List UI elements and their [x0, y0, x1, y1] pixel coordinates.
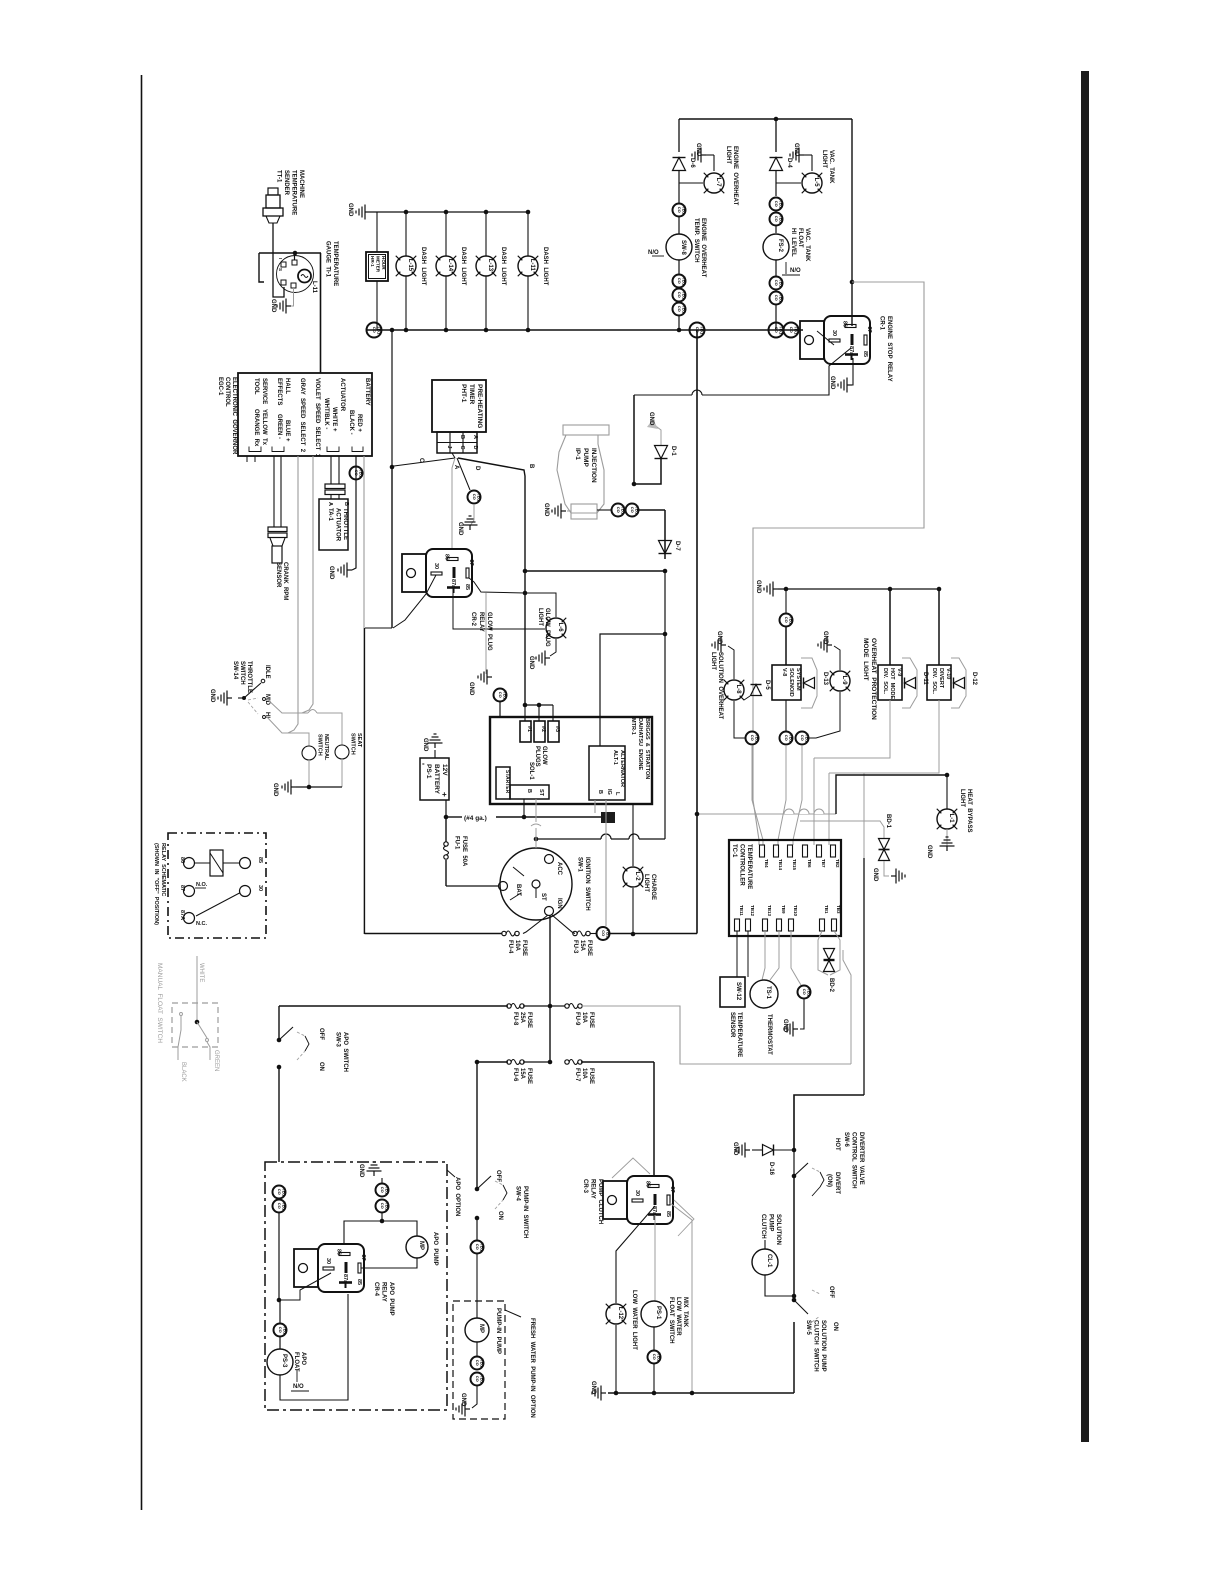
TC-1 bottom row terminals: [735, 919, 740, 931]
svg-text:ENGINE OVERHEATTEMP. SWITCH: ENGINE OVERHEATTEMP. SWITCH: [693, 218, 706, 278]
svg-text:GND: GND: [872, 868, 878, 882]
relay CR-4 pin 86: [339, 1253, 350, 1256]
svg-text:FUSE 50AFU-1: FUSE 50AFU-1: [454, 836, 468, 867]
svg-text:ORANGE Rx: ORANGE Rx: [253, 409, 259, 447]
svg-text:TB1: TB1: [824, 905, 829, 914]
svg-text:ENGINE OVERHEATLIGHT: ENGINE OVERHEATLIGHT: [725, 146, 738, 206]
svg-text:L-12: L-12: [617, 1307, 623, 1320]
svg-text:CO: CO: [800, 735, 805, 741]
svg-text:ST: ST: [538, 789, 544, 797]
glow plug bus: [525, 704, 553, 706]
solution pump clutch switch SW-5: [792, 1298, 797, 1303]
svg-text:WHITE: WHITE: [198, 963, 204, 982]
relay CR-4 body: [318, 1244, 364, 1292]
svg-text:ON: ON: [497, 1211, 503, 1220]
svg-text:IGNITION SWITCHSW-1: IGNITION SWITCHSW-1: [577, 857, 591, 911]
alternator output wires: [605, 800, 607, 926]
wire 87 gray to bottom net: [670, 1203, 692, 1393]
svg-text:HALL: HALL: [284, 378, 290, 394]
fuse FU-3 15A: [573, 931, 577, 935]
svg-text:BATTERY: BATTERY: [364, 378, 370, 406]
throttle actuator TA-1: [319, 499, 348, 550]
svg-text:NEUTRALSWITCH: NEUTRALSWITCH: [317, 734, 330, 761]
svg-text:DASH LIGHT: DASH LIGHT: [542, 247, 548, 286]
svg-text:CO: CO: [774, 216, 779, 222]
hour meter HR-1: [366, 252, 388, 281]
relay CR-4 pin 85: [339, 1281, 352, 1284]
EGC actuator wires: [330, 456, 332, 484]
svg-text:GND: GND: [829, 376, 835, 390]
APO switch SW-3: [278, 1006, 280, 1040]
TC-1 top row terminals: [760, 845, 765, 857]
throttle switch ground: [238, 697, 244, 699]
svg-text:CO: CO: [475, 1376, 480, 1382]
svg-text:CO: CO: [277, 1189, 282, 1195]
engine overheat light L-7: [704, 173, 724, 193]
feeder drop to engine stop relay: [851, 119, 853, 326]
wire 87a to low water light: [616, 1206, 655, 1303]
connector pair: [376, 1184, 389, 1197]
svg-text:IG: IG: [606, 789, 612, 795]
svg-text:85: 85: [356, 1279, 362, 1285]
battery 12V PS-1: [420, 758, 449, 800]
connector pair: [770, 277, 783, 290]
svg-text:D: D: [472, 446, 478, 450]
glow plugs: [520, 721, 531, 742]
APO float switch PS-3: [267, 1349, 293, 1375]
svg-text:L-11: L-11: [529, 259, 535, 272]
svg-text:LOW WATER LIGHT: LOW WATER LIGHT: [631, 1290, 637, 1350]
svg-text:ELECTRONIC GOVERNORCONTROLEGC: ELECTRONIC GOVERNORCONTROLEGC-1: [217, 377, 237, 455]
svg-text:TB6: TB6: [807, 859, 812, 868]
svg-text:TEMPERATUREGAUGE TI-1: TEMPERATUREGAUGE TI-1: [325, 241, 339, 286]
page left rule: [141, 75, 143, 1510]
pump-in connector: [471, 1241, 484, 1254]
svg-text:CO: CO: [601, 930, 606, 936]
svg-text:TB11: TB11: [739, 905, 744, 916]
gray riser to diverter switch: [863, 773, 865, 858]
svg-text:#1: #1: [526, 726, 532, 732]
connector pair: [770, 198, 783, 211]
main ignition bus: [366, 329, 803, 331]
svg-text:PS-3: PS-3: [281, 1354, 287, 1368]
svg-text:L: L: [614, 792, 620, 796]
injection pump IP-1: [557, 435, 604, 513]
svg-text:GND: GND: [209, 689, 215, 703]
relay CR-1 pin 30: [829, 339, 840, 342]
dash light lamp L-15: [396, 256, 416, 276]
connector on black wire: [350, 467, 363, 480]
PHT-1 fan out wires: [452, 453, 455, 458]
svg-text:D-13: D-13: [822, 672, 828, 686]
relay CR-2 body: [426, 549, 472, 597]
relay CR-1 pin 86: [845, 325, 856, 328]
relay CR-1 pin 87: [864, 335, 867, 345]
relay CR-3 pin 86: [648, 1185, 659, 1188]
battery ground: [434, 750, 436, 758]
relay 30 wire: [280, 1273, 331, 1300]
EGC battery red wire: [363, 456, 365, 934]
heat bypass light L-1: [946, 775, 948, 809]
svg-text:L-1: L-1: [948, 814, 954, 824]
connector above engine box: [494, 689, 507, 702]
engine box MTR-1: [490, 717, 652, 804]
svg-text:BAT: BAT: [515, 884, 521, 896]
svg-text:TB9: TB9: [781, 905, 786, 914]
svg-text:CO: CO: [498, 692, 503, 698]
temperature gauge TI-1 circle: [277, 256, 314, 293]
svg-text:CO: CO: [802, 989, 807, 995]
pump-in pump dashed box: [453, 1301, 505, 1419]
svg-text:FUSE15AFU-3: FUSE15AFU-3: [572, 940, 592, 956]
relay CR-3 body: [627, 1176, 673, 1224]
diode pack BD-1: [800, 821, 884, 838]
relay CR-4 pin 87a: [345, 1262, 348, 1273]
svg-text:APO PUMP: APO PUMP: [432, 1232, 438, 1266]
relay CR-1 tab: [800, 321, 824, 359]
fuse FU-7 10A: [565, 1060, 569, 1064]
svg-text:HEAT BYPASSLIGHT: HEAT BYPASSLIGHT: [959, 789, 972, 832]
svg-text:86: 86: [645, 1181, 651, 1187]
svg-text:CO: CO: [380, 1187, 385, 1193]
svg-text:86: 86: [444, 554, 450, 560]
relay CR-4 tab: [294, 1249, 318, 1287]
svg-text:SOLUTIONPUMPCLUTCH: SOLUTIONPUMPCLUTCH: [760, 1214, 781, 1245]
dash light lamp L-14: [436, 256, 456, 276]
feed line to stop relay 87a: [634, 394, 692, 396]
svg-text:D: D: [474, 466, 480, 471]
svg-text:TB13: TB13: [767, 905, 772, 917]
IGN fuse feeds: [549, 915, 551, 1062]
svg-text:L-8: L-8: [735, 685, 741, 695]
svg-text:TEMPERATURECONTROLLERTC-1: TEMPERATURECONTROLLERTC-1: [731, 844, 752, 889]
svg-text:GREEN: GREEN: [213, 1050, 219, 1071]
svg-text:CO: CO: [774, 295, 779, 301]
svg-text:(#4 ga.): (#4 ga.): [464, 815, 487, 822]
svg-text:GND: GND: [782, 1019, 788, 1033]
relay CR-2 tab: [402, 554, 426, 592]
svg-text:D-12: D-12: [971, 672, 977, 686]
svg-text:B: B: [459, 435, 465, 439]
ST feed from D-7 chain: [664, 634, 666, 839]
svg-text:FUSE15AFU-6: FUSE15AFU-6: [512, 1068, 532, 1084]
heat bypass light feed: [697, 813, 836, 815]
svg-text:87: 87: [866, 327, 872, 333]
svg-text:FUSE10AFU-4: FUSE10AFU-4: [507, 940, 527, 956]
ST wire from engine: [535, 799, 537, 822]
wire 87 to glow plug light: [469, 578, 525, 593]
svg-text:OVERHEAT PROTECTIONMODE LIGH: OVERHEAT PROTECTIONMODE LIGHT: [862, 638, 877, 720]
divert div sol V-10: [938, 589, 940, 665]
overheat gnd bus: [764, 582, 778, 597]
legend pin 87: [184, 886, 195, 897]
connector under L-9: [796, 732, 809, 745]
svg-text:87A: 87A: [179, 910, 185, 920]
svg-text:SEATSWITCH: SEATSWITCH: [350, 733, 363, 755]
engine overheat chain wire: [678, 119, 680, 152]
wire to ignition BAT: [446, 885, 499, 887]
legend pin 86: [184, 858, 195, 869]
svg-text:SOL-1: SOL-1: [528, 762, 534, 780]
svg-text:30: 30: [433, 563, 439, 569]
svg-text:GND: GND: [468, 682, 474, 696]
svg-text:FS-2: FS-2: [777, 239, 783, 253]
svg-text:RELAY SCHEMATIC(SHOWN IN "O: RELAY SCHEMATIC(SHOWN IN "OFF" POSITION): [153, 843, 166, 925]
svg-text:TOOL: TOOL: [253, 378, 259, 395]
fuse FU-8 25A: [507, 1004, 511, 1008]
PHT-1 connector grid: [437, 432, 477, 453]
svg-text:APO SWITCHSW-3: APO SWITCHSW-3: [335, 1032, 349, 1072]
dash light lamp L-11: [518, 256, 538, 276]
APO float chain: [274, 1324, 287, 1337]
svg-text:86: 86: [842, 321, 848, 327]
diverter valve control switch SW-6: [793, 1150, 795, 1176]
gauge ground: [291, 288, 294, 306]
svg-text:THROTTLESWITCHSW-14: THROTTLESWITCHSW-14: [232, 661, 252, 693]
glow plug light ground: [550, 639, 556, 656]
fuse row 2 wire: [279, 1005, 508, 1007]
connector on main bus right: [690, 323, 705, 338]
svg-text:PUMP CLUTCHRELAYCR-3: PUMP CLUTCHRELAYCR-3: [582, 1179, 603, 1224]
svg-text:DASH LIGHT: DASH LIGHT: [420, 247, 426, 286]
svg-text:OFF: OFF: [828, 1286, 834, 1298]
gray riser right of TC-1: [843, 950, 851, 1064]
svg-text:PUMP-IN PUMP: PUMP-IN PUMP: [495, 1308, 501, 1354]
svg-text:I: I: [278, 258, 283, 259]
mode light L-9: [834, 646, 840, 670]
svg-text:TEMPERATURESENSOR: TEMPERATURESENSOR: [729, 1012, 742, 1057]
relay CR-2 pin 86: [447, 558, 458, 561]
diode D-5: [751, 685, 762, 696]
APO feed connectors: [273, 1186, 286, 1199]
svg-text:FUSE10AFU-9: FUSE10AFU-9: [574, 1012, 594, 1028]
relay CR-4 pin 30: [323, 1267, 334, 1270]
svg-text:SW-8: SW-8: [680, 240, 686, 256]
EGC service tool stubs: [246, 456, 248, 462]
svg-text:CO: CO: [652, 1354, 657, 1360]
svg-text:N/O: N/O: [790, 268, 801, 274]
EGC speed select wires: [302, 456, 313, 713]
svg-text:ST: ST: [540, 893, 546, 901]
svg-text:GND: GND: [755, 580, 761, 594]
diode D-13: [804, 678, 815, 689]
pre-heating timer PHT-1: [432, 380, 486, 432]
svg-text:WHITE +: WHITE +: [331, 407, 337, 432]
relay CR-2 pin 87a: [453, 567, 456, 578]
connector on D wire: [468, 491, 481, 504]
wires to temperature sensor: [736, 931, 738, 977]
svg-text:CO: CO: [475, 1244, 480, 1250]
battery positive cable: [445, 800, 447, 817]
svg-text:D-5: D-5: [764, 680, 770, 690]
svg-text:L-2: L-2: [634, 872, 640, 882]
svg-text:86: 86: [179, 857, 185, 863]
svg-text:GLOW PLUGRELAYCR-2: GLOW PLUGRELAYCR-2: [470, 612, 492, 651]
svg-text:IGN: IGN: [556, 898, 562, 909]
svg-text:CO: CO: [784, 735, 789, 741]
switch feed wires: [266, 698, 308, 713]
charge light L-2: [623, 867, 643, 887]
diode D-12: [954, 678, 965, 689]
svg-text:86: 86: [336, 1249, 342, 1255]
system solenoid V-8 chain: [785, 589, 787, 613]
relay CR-2 pin 30: [431, 572, 442, 575]
svg-text:CO: CO: [677, 292, 682, 298]
svg-text:MIX TANKLOW WATERFLOAT SWIT: MIX TANKLOW WATERFLOAT SWITCH: [668, 1297, 688, 1344]
svg-text:CO: CO: [630, 507, 635, 513]
svg-text:D-16: D-16: [768, 1162, 774, 1176]
gray drop to ground under relay: [485, 593, 487, 674]
injection pump ground: [567, 510, 571, 512]
wire sender to gauge: [273, 223, 284, 297]
svg-text:(ON): (ON): [826, 1174, 832, 1187]
gauge riser to governor: [320, 253, 322, 373]
feed riser: [391, 467, 393, 628]
svg-text:30: 30: [634, 1190, 640, 1196]
svg-text:CHARGELIGHT: CHARGELIGHT: [643, 874, 656, 900]
diode D-4: [770, 158, 783, 171]
svg-text:L-5: L-5: [813, 178, 819, 188]
APO option dashed box: [265, 1162, 447, 1410]
svg-text:CO: CO: [472, 494, 477, 500]
APO pump motor: [406, 1236, 428, 1258]
svg-text:RED +: RED +: [356, 414, 362, 432]
svg-text:VAC. TANKFLOATHI LEVEL: VAC. TANKFLOATHI LEVEL: [790, 228, 810, 262]
fresh water option label: [505, 1310, 521, 1317]
svg-text:HOT: HOT: [834, 1138, 840, 1151]
svg-text:SYSTEMSOLENOIDV-8: SYSTEMSOLENOIDV-8: [781, 668, 801, 697]
svg-text:TS-1: TS-1: [765, 986, 771, 1000]
vac tank chain wire: [775, 119, 777, 152]
svg-text:TB10: TB10: [793, 905, 798, 917]
APO ground: [367, 1162, 382, 1176]
gauge lamp: [298, 270, 311, 283]
svg-text:N/O: N/O: [648, 250, 659, 256]
svg-text:SOLUTION OVERHEATLIGHT: SOLUTION OVERHEATLIGHT: [710, 652, 723, 720]
svg-text:FUSE25AFU-8: FUSE25AFU-8: [512, 1012, 532, 1028]
fuse FU-4 10A: [502, 931, 506, 935]
neutral switch: [302, 746, 316, 760]
engine stop relay lever: [817, 331, 834, 345]
svg-text:MP: MP: [418, 1241, 424, 1250]
svg-text:CO: CO: [784, 617, 789, 623]
diode D-11: [905, 678, 916, 689]
relay CR-3 tab: [603, 1181, 627, 1219]
svg-text:TB3: TB3: [836, 905, 841, 914]
svg-text:L-9: L-9: [841, 676, 847, 686]
svg-text:GND: GND: [528, 656, 534, 670]
svg-text:GND: GND: [358, 1164, 364, 1178]
relay CR-1 pin 85: [845, 353, 858, 356]
svg-text:BLACK -: BLACK -: [348, 410, 354, 435]
svg-text:BRIGGS & STRATTONDAIHATSU E: BRIGGS & STRATTONDAIHATSU ENGINEMTR-1: [630, 718, 650, 779]
EGC hall effect wires to crank sensor: [273, 456, 275, 527]
svg-text:L-6: L-6: [557, 623, 563, 633]
diode D-1 with gray gnd arrow: [653, 424, 661, 446]
svg-text:B: B: [526, 789, 532, 793]
relay schematic dashed box: [168, 833, 266, 938]
svg-text:A: A: [453, 465, 459, 470]
svg-text:PS-1: PS-1: [655, 1306, 661, 1320]
svg-text:GND: GND: [457, 522, 463, 536]
svg-text:HOURMETERHR-1: HOURMETERHR-1: [370, 256, 386, 273]
fuse row 3 wire: [477, 1061, 508, 1063]
svg-text:N.C.: N.C.: [196, 921, 207, 927]
vac tank light L-5: [802, 173, 822, 193]
svg-text:30: 30: [325, 1258, 331, 1264]
legend coil: [210, 850, 223, 876]
svg-text:BLUE +: BLUE +: [284, 420, 290, 442]
relay CR-3 pin 85: [648, 1213, 661, 1216]
connector under PS-1: [648, 1351, 661, 1364]
svg-text:CO: CO: [677, 278, 682, 284]
svg-text:#2: #2: [540, 726, 546, 732]
pump connector pair: [476, 1342, 478, 1356]
svg-text:ALTERNATORALT-1: ALTERNATORALT-1: [612, 750, 625, 787]
svg-text:L-11: L-11: [311, 281, 317, 294]
svg-text:L-7: L-7: [715, 178, 721, 188]
svg-text:PRE-HEATINGTIMERPHT-1: PRE-HEATINGTIMERPHT-1: [460, 384, 483, 428]
diode pack BD-2: [818, 931, 822, 948]
diode D-16 with ground: [763, 1145, 774, 1156]
svg-text:OFF: OFF: [318, 1028, 324, 1040]
bottom ground net: [608, 1392, 794, 1394]
svg-text:FUSE10AFU-7: FUSE10AFU-7: [574, 1068, 594, 1084]
svg-text:#3: #3: [554, 726, 560, 732]
svg-text:ACC: ACC: [556, 862, 562, 876]
svg-text:GND: GND: [543, 503, 549, 517]
seat switch: [335, 745, 349, 759]
glow plug light L-6: [546, 618, 566, 638]
svg-text:GND: GND: [648, 412, 654, 426]
solution pump clutch CL-1: [793, 1176, 795, 1296]
svg-text:GND: GND: [422, 738, 428, 752]
svg-text:IDLE: IDLE: [264, 665, 270, 679]
svg-text:DASH LIGHT: DASH LIGHT: [460, 247, 466, 286]
relay CR-3 pin 87: [667, 1195, 670, 1205]
D-7 branch: [664, 510, 666, 559]
svg-text:87: 87: [669, 1187, 675, 1193]
svg-text:ON: ON: [832, 1322, 838, 1331]
svg-text:YELLOW Tx: YELLOW Tx: [261, 409, 267, 446]
svg-text:BD-1: BD-1: [885, 814, 891, 829]
svg-text:SERVICE: SERVICE: [261, 378, 267, 404]
svg-text:GREEN -: GREEN -: [276, 414, 282, 439]
alternator box: [589, 746, 625, 800]
svg-text:INJECTIONPUMPIP-1: INJECTIONPUMPIP-1: [574, 448, 597, 483]
vac tank hi level float switch FS-2: [763, 234, 789, 260]
legend pin 87A: [184, 913, 195, 924]
svg-text:GND: GND: [328, 566, 334, 580]
hot mode div sol V-9: [889, 589, 891, 665]
feed to pump clutch relay: [653, 1062, 655, 1176]
connector pair before engine stop relay: [769, 323, 784, 338]
svg-text:L-14: L-14: [447, 259, 453, 272]
starter box: [496, 767, 510, 799]
svg-text:TB2: TB2: [835, 859, 840, 868]
svg-text:+: +: [442, 790, 447, 799]
gauge feed wires: [259, 252, 321, 254]
diverter valve feed: [794, 1095, 864, 1150]
svg-text:APOFLOAT: APOFLOAT: [293, 1352, 306, 1372]
svg-text:GND: GND: [272, 783, 278, 797]
svg-text:ON: ON: [318, 1062, 324, 1071]
svg-text:S: S: [278, 268, 283, 271]
connector on main bus left: [367, 323, 382, 338]
svg-text:GND: GND: [270, 299, 276, 313]
wire 30 pin to feed: [393, 575, 436, 628]
solenoid terminal box: [510, 785, 549, 799]
